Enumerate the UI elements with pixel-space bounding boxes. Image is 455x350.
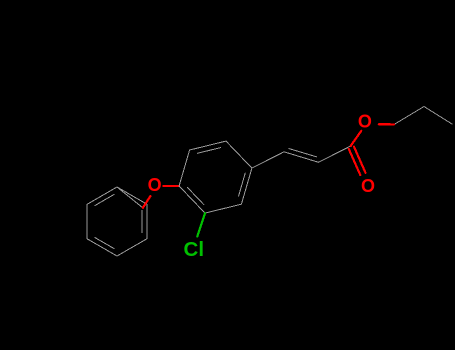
benzene ring of benzyl group [87, 187, 147, 256]
central aryl ring [179, 107, 452, 214]
svg-text:O: O [358, 112, 372, 132]
svg-text:O: O [361, 176, 375, 196]
bond ipso C to benzylic CH2 [117, 187, 143, 208]
bond CH2 to ether O (red) [143, 196, 151, 208]
bond C1 to vinyl CH alpha [252, 152, 284, 168]
bond CH2 to terminal CH3 (propyl) [424, 107, 452, 125]
bond C3 to Cl (green) [197, 213, 205, 237]
bond ester CH2 to CH2 (propyl) [394, 107, 424, 125]
svg-text:Cl: Cl [184, 238, 205, 261]
bond ether O to aryl C4 (red) [163, 185, 179, 187]
carbonyl C=O double bond (red) [349, 147, 366, 175]
benzyl ring double bond 2 [141, 210, 143, 232]
benzyl ring double bond 1 [95, 194, 114, 205]
bond ester O to propyl CH2 (red) [379, 123, 394, 125]
bond carbonyl C to ester O (red) [351, 131, 362, 146]
central ring double bond 3 [187, 187, 204, 204]
vinyl C=C double bond [284, 152, 319, 163]
svg-text:O: O [148, 175, 162, 195]
central ring double bond 2 [239, 173, 246, 196]
benzyl ring double bond 3 [95, 238, 114, 249]
central ring double bond 1 [197, 148, 220, 154]
bond CH beta to carbonyl C [319, 146, 351, 162]
